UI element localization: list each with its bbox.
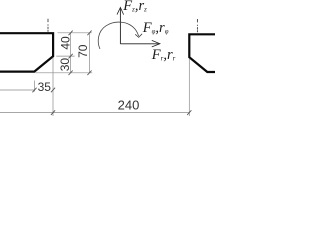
tick 35 left — [32, 88, 36, 93]
tick 35 right — [51, 88, 55, 93]
phi arrowhead — [135, 34, 142, 38]
left centerline — [47, 19, 49, 32]
svg-text:Fr,rr: Fr,rr — [151, 47, 176, 63]
dimension line 70 — [89, 33, 91, 73]
svg-text:240: 240 — [118, 97, 140, 112]
extension line mid (chamfer corner) — [56, 55, 74, 57]
dimension line 35 — [0, 89, 35, 91]
svg-text:70: 70 — [76, 44, 90, 58]
tick dim1 top — [69, 31, 73, 36]
dimension line 240 — [0, 112, 189, 114]
right centerline — [196, 19, 198, 32]
extension line right section (x=189.3) — [188, 59, 190, 116]
left rim section outline — [0, 33, 53, 71]
z axis arrowhead — [117, 7, 124, 14]
tick dim2 bottom — [87, 71, 91, 76]
svg-text:Fφ,rφ: Fφ,rφ — [142, 20, 169, 36]
svg-text:40: 40 — [58, 36, 72, 50]
svg-text:35: 35 — [38, 80, 52, 94]
tick dim1 bottom — [69, 71, 73, 76]
extension line top — [58, 32, 92, 34]
r axis — [120, 43, 158, 45]
tick 240 left — [51, 110, 55, 115]
extension line right of groove (x=53) — [52, 58, 54, 117]
tick dim1 mid — [69, 54, 73, 59]
svg-text:Fz,rz: Fz,rz — [122, 0, 147, 14]
dimension line 40/30 — [70, 33, 72, 73]
extension line bottom — [35, 72, 92, 74]
right rim section outline — [189, 34, 215, 72]
r axis arrowhead — [152, 40, 160, 47]
svg-text:30: 30 — [58, 58, 72, 72]
extension tick 35 left — [34, 81, 36, 92]
tick 240 right — [187, 110, 191, 115]
z axis — [119, 9, 121, 44]
phi curved arrow — [98, 22, 138, 49]
tick dim2 top — [87, 31, 91, 36]
